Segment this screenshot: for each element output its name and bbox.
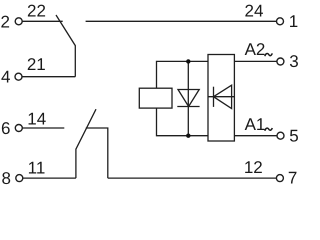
box diode triangle	[214, 85, 232, 108]
junction dot bottom	[186, 134, 190, 138]
wire through box	[208, 96, 234, 98]
terminal 2 circle	[15, 18, 22, 25]
svg-text:6: 6	[1, 119, 10, 138]
terminal 1 circle	[277, 18, 284, 25]
svg-text:A1: A1	[245, 115, 266, 134]
svg-text:14: 14	[27, 110, 46, 129]
tilde after A1	[265, 128, 273, 131]
wire terminal 4 to blade	[22, 76, 75, 78]
svg-text:21: 21	[27, 55, 46, 74]
svg-text:8: 8	[1, 169, 10, 188]
svg-text:7: 7	[288, 169, 297, 188]
svg-text:12: 12	[244, 158, 263, 177]
wire bottom rail A1	[157, 108, 209, 136]
wire terminal 8 to blade	[23, 177, 76, 179]
rectifier box U1	[208, 55, 234, 142]
wire top rail A2	[157, 61, 209, 88]
svg-text:2: 2	[0, 12, 9, 31]
switch blade contact 21-22	[56, 15, 75, 77]
wire A1 to terminal 5	[234, 135, 277, 137]
terminal 5 circle	[277, 132, 284, 139]
wire 24 to terminal 1	[86, 20, 277, 22]
wire diode branch	[187, 61, 189, 135]
box diode cathode bar	[213, 87, 215, 107]
tilde after A2	[265, 53, 273, 56]
svg-text:22: 22	[27, 2, 46, 21]
wire contact 22 fixed	[22, 20, 62, 22]
terminal 6 circle	[15, 125, 22, 132]
svg-text:A2: A2	[245, 40, 266, 59]
svg-text:11: 11	[28, 158, 46, 177]
terminal 7 circle	[276, 175, 283, 182]
svg-text:4: 4	[1, 67, 10, 86]
junction dot top	[186, 59, 190, 63]
diode V1 cathode bar	[177, 106, 199, 108]
svg-text:1: 1	[289, 12, 298, 31]
switch blade contact 11-14	[76, 109, 96, 178]
svg-text:24: 24	[245, 2, 264, 21]
diode V1 triangle	[178, 90, 199, 107]
wire 12 to terminal 7	[108, 177, 276, 179]
wire contact 14 fixed	[22, 127, 64, 129]
wire A2 to terminal 3	[234, 60, 277, 62]
relay coil K1	[139, 88, 172, 108]
terminal 4 circle	[15, 73, 22, 80]
terminal 3 circle	[277, 58, 284, 65]
wire contact 14 right to corner	[86, 128, 108, 178]
svg-text:5: 5	[289, 127, 298, 146]
svg-text:3: 3	[289, 52, 298, 71]
terminal 8 circle	[16, 175, 23, 182]
